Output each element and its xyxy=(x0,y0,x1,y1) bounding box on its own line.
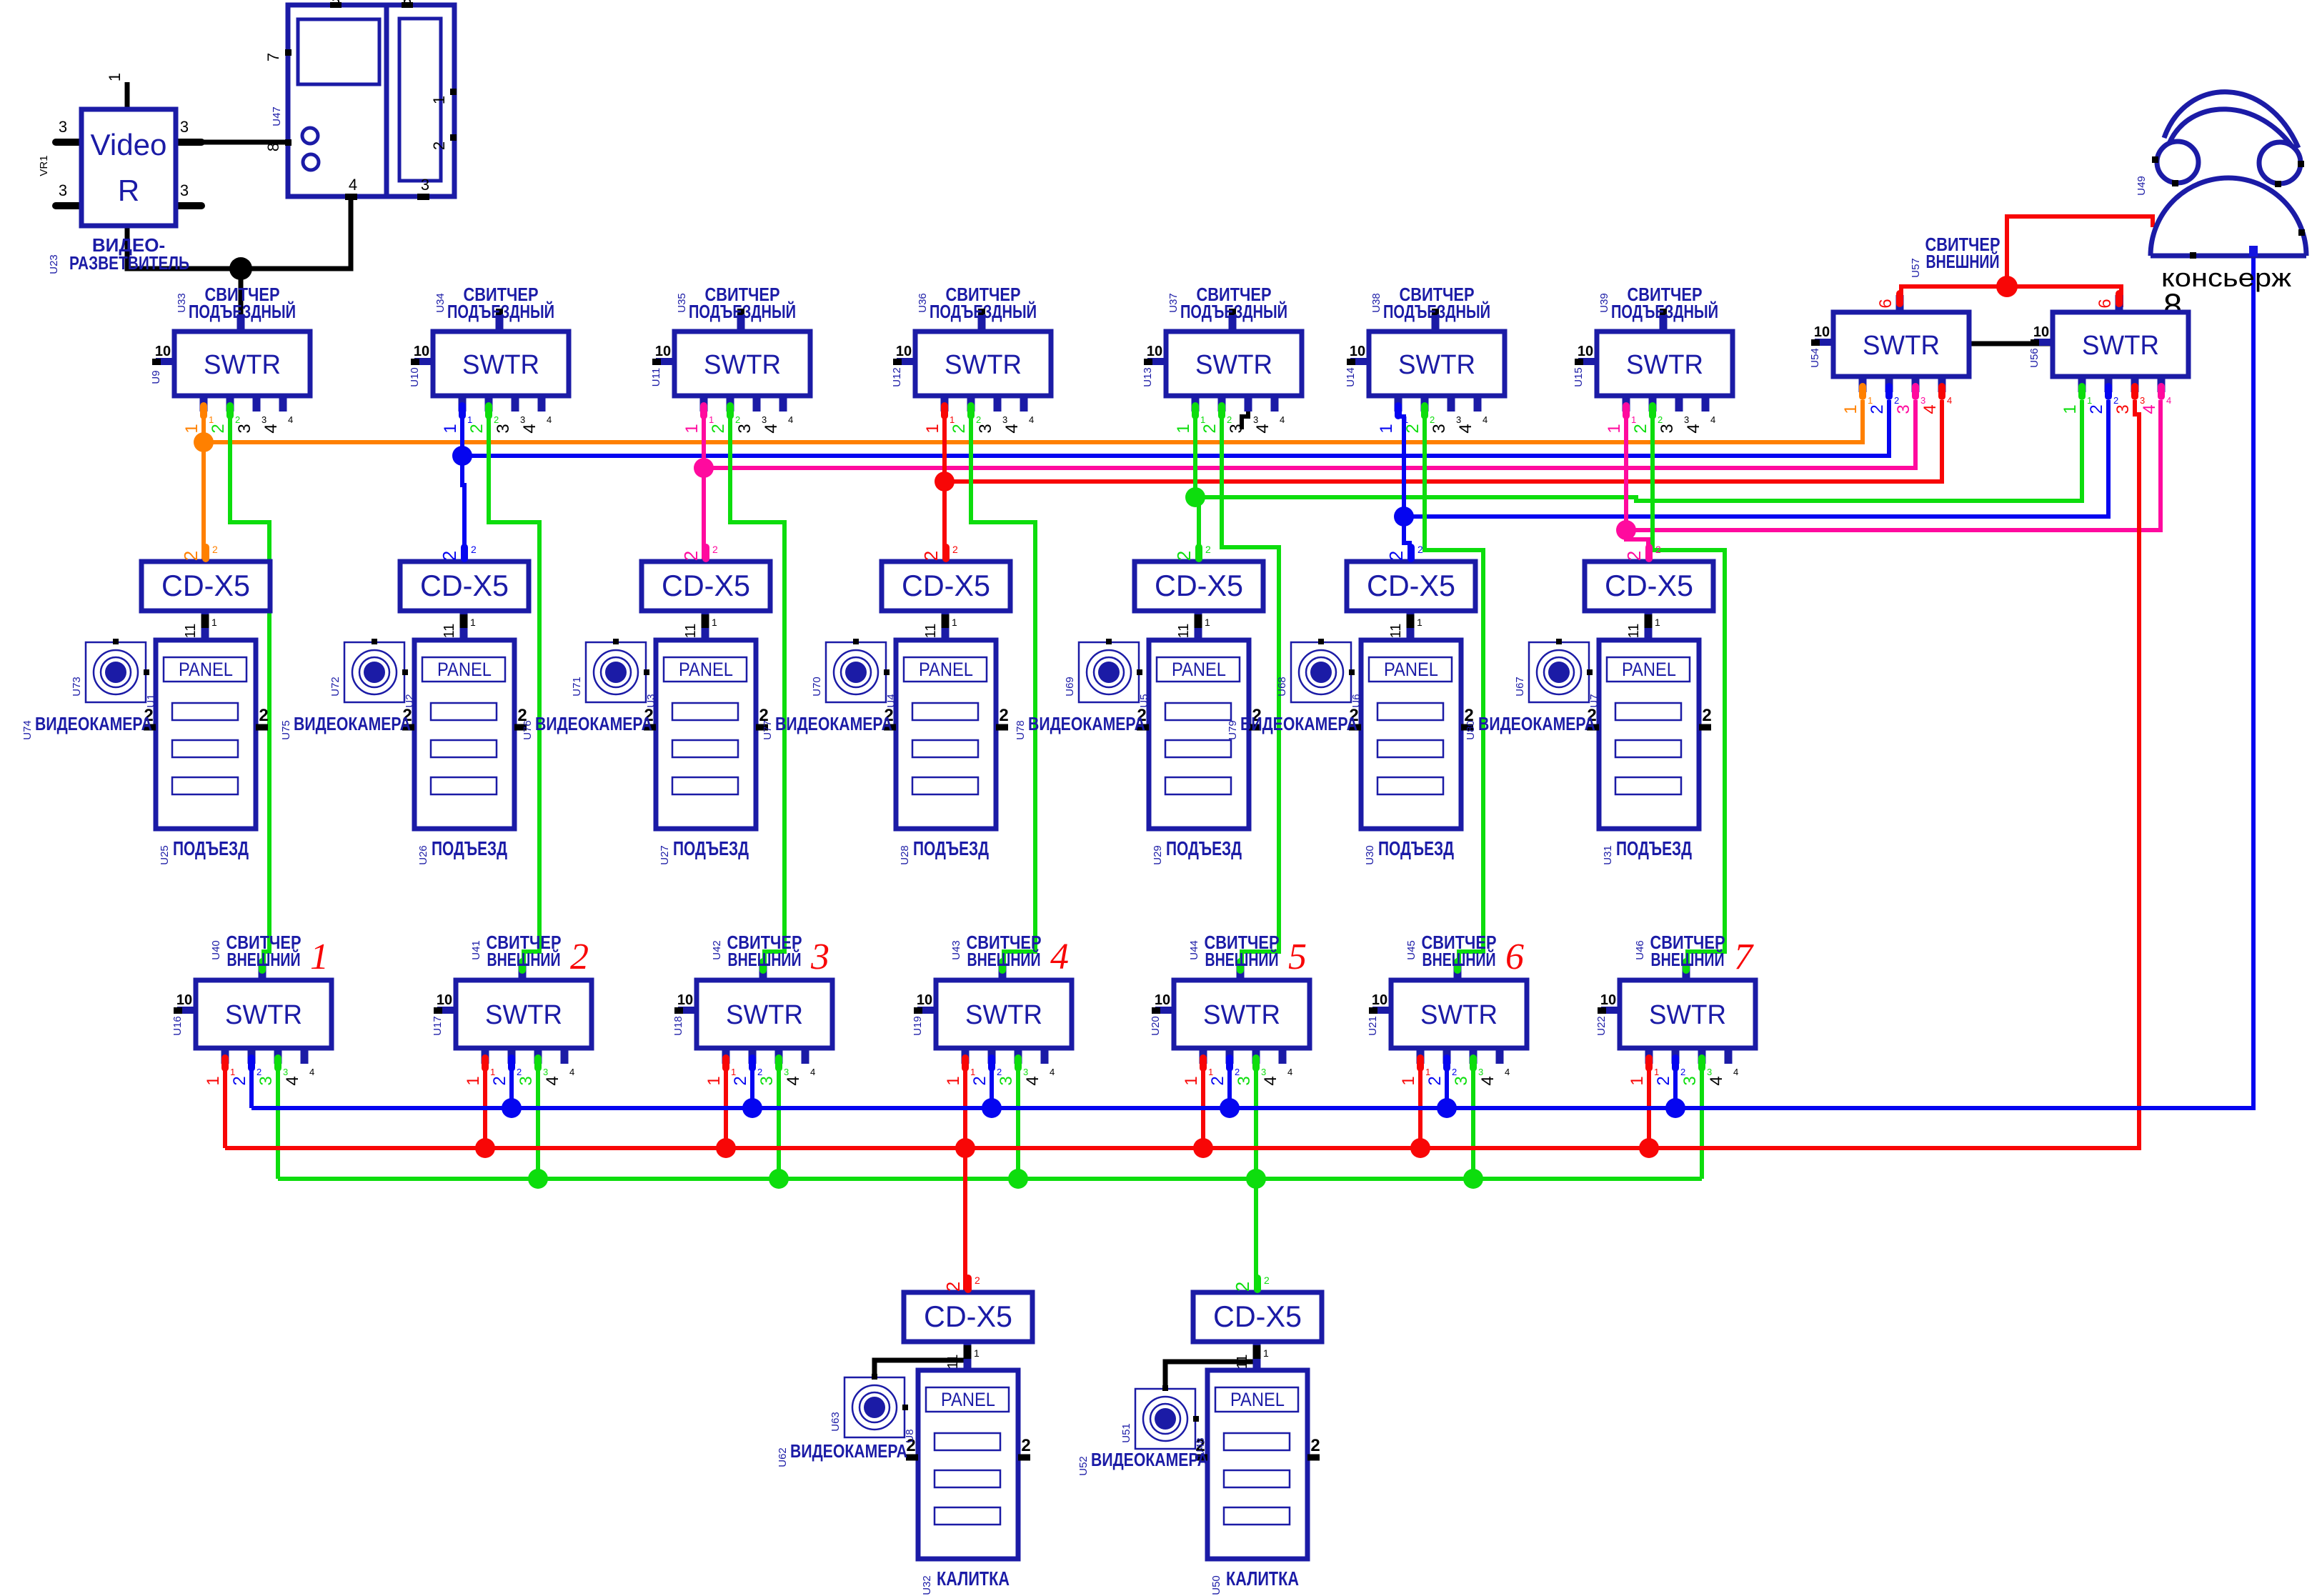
svg-text:10: 10 xyxy=(414,344,429,359)
svg-text:U10: U10 xyxy=(409,367,421,387)
svg-text:4: 4 xyxy=(1029,414,1034,425)
svg-text:2: 2 xyxy=(976,414,981,425)
svg-text:U41: U41 xyxy=(470,940,482,960)
svg-text:ВНЕШНИЙ: ВНЕШНИЙ xyxy=(1422,949,1496,970)
svg-text:11: 11 xyxy=(183,624,199,639)
svg-text:1: 1 xyxy=(1417,617,1422,628)
svg-text:2: 2 xyxy=(2113,395,2118,406)
svg-text:1: 1 xyxy=(467,414,472,425)
svg-text:U62: U62 xyxy=(777,1447,789,1467)
svg-text:3: 3 xyxy=(2113,404,2133,414)
svg-text:SWTR: SWTR xyxy=(1863,331,1940,361)
svg-text:4: 4 xyxy=(1947,395,1952,406)
svg-text:SWTR: SWTR xyxy=(726,1000,803,1030)
svg-text:U27: U27 xyxy=(659,845,671,865)
svg-text:4: 4 xyxy=(569,1067,574,1077)
svg-text:1: 1 xyxy=(2061,404,2080,414)
svg-text:11: 11 xyxy=(1176,624,1192,639)
svg-text:PANEL: PANEL xyxy=(919,659,973,680)
svg-text:2: 2 xyxy=(1654,1076,1673,1085)
svg-text:3: 3 xyxy=(520,414,525,425)
svg-text:3: 3 xyxy=(1253,414,1258,425)
svg-text:2: 2 xyxy=(212,544,218,555)
svg-text:3: 3 xyxy=(1680,1076,1700,1085)
svg-text:U57: U57 xyxy=(1910,258,1922,278)
svg-text:SWTR: SWTR xyxy=(1626,350,1703,380)
svg-text:U21: U21 xyxy=(1367,1016,1379,1036)
svg-text:РАЗВЕТВИТЕЛЬ: РАЗВЕТВИТЕЛЬ xyxy=(69,252,189,274)
svg-text:U1: U1 xyxy=(145,694,157,707)
svg-text:1: 1 xyxy=(1654,1067,1659,1077)
svg-text:1: 1 xyxy=(1841,404,1860,414)
svg-text:4: 4 xyxy=(261,424,281,433)
svg-text:ПОДЪЕЗД: ПОДЪЕЗД xyxy=(1166,837,1242,859)
svg-text:4: 4 xyxy=(1287,1067,1292,1077)
svg-text:4: 4 xyxy=(1483,414,1488,425)
svg-text:1: 1 xyxy=(1174,424,1193,433)
svg-text:4: 4 xyxy=(309,1067,314,1077)
svg-text:3: 3 xyxy=(1023,1067,1028,1077)
svg-text:ПОДЪЕЗДНЫЙ: ПОДЪЕЗДНЫЙ xyxy=(447,301,554,322)
svg-text:U30: U30 xyxy=(1364,845,1376,865)
svg-text:CD-X5: CD-X5 xyxy=(1155,569,1243,602)
svg-text:U34: U34 xyxy=(434,293,447,313)
svg-text:U72: U72 xyxy=(329,677,342,697)
svg-text:U9: U9 xyxy=(150,370,162,384)
svg-text:SWTR: SWTR xyxy=(1398,350,1475,380)
svg-text:U49: U49 xyxy=(2136,176,2148,196)
svg-text:11: 11 xyxy=(945,1355,961,1370)
svg-text:ВИДЕОКАМЕРА: ВИДЕОКАМЕРА xyxy=(1028,713,1145,734)
svg-text:2: 2 xyxy=(180,551,201,561)
svg-text:6: 6 xyxy=(2096,299,2115,308)
svg-text:2: 2 xyxy=(942,1282,964,1292)
svg-text:10: 10 xyxy=(1600,992,1616,1008)
svg-text:ПОДЪЕЗДНЫЙ: ПОДЪЕЗДНЫЙ xyxy=(930,301,1037,322)
svg-text:1: 1 xyxy=(2087,395,2092,406)
svg-text:4: 4 xyxy=(1002,424,1022,433)
svg-text:4: 4 xyxy=(2140,404,2159,414)
svg-text:4: 4 xyxy=(283,1076,302,1085)
svg-text:2: 2 xyxy=(1385,551,1407,561)
svg-text:U26: U26 xyxy=(417,845,429,865)
svg-text:3: 3 xyxy=(180,118,189,136)
svg-text:U45: U45 xyxy=(1405,940,1417,960)
svg-text:1: 1 xyxy=(1868,395,1873,406)
svg-text:1: 1 xyxy=(204,1076,223,1085)
svg-text:2: 2 xyxy=(259,706,268,725)
svg-text:2: 2 xyxy=(517,1067,522,1077)
svg-text:2: 2 xyxy=(467,424,487,433)
svg-text:U20: U20 xyxy=(1150,1016,1162,1036)
svg-text:2: 2 xyxy=(1403,424,1422,433)
svg-text:4: 4 xyxy=(1684,424,1703,433)
svg-text:U36: U36 xyxy=(917,293,929,313)
svg-text:1: 1 xyxy=(430,96,448,104)
svg-text:SWTR: SWTR xyxy=(1203,1000,1280,1030)
svg-text:U17: U17 xyxy=(432,1016,444,1036)
svg-text:2: 2 xyxy=(570,937,589,977)
svg-text:U6: U6 xyxy=(1350,694,1362,707)
svg-text:1: 1 xyxy=(1655,617,1660,628)
svg-text:3: 3 xyxy=(235,424,254,433)
svg-text:3: 3 xyxy=(1478,1067,1483,1077)
svg-text:3: 3 xyxy=(997,1076,1016,1085)
svg-text:ПОДЪЕЗДНЫЙ: ПОДЪЕЗДНЫЙ xyxy=(1180,301,1287,322)
svg-text:3: 3 xyxy=(1235,1076,1254,1085)
svg-text:PANEL: PANEL xyxy=(941,1389,995,1410)
svg-text:1: 1 xyxy=(923,424,942,433)
svg-text:3: 3 xyxy=(2140,395,2145,406)
svg-text:U73: U73 xyxy=(71,677,83,697)
svg-text:1: 1 xyxy=(704,1076,724,1085)
svg-text:U47: U47 xyxy=(271,106,283,126)
svg-text:ВИДЕОКАМЕРА: ВИДЕОКАМЕРА xyxy=(1091,1449,1208,1470)
svg-text:PANEL: PANEL xyxy=(1172,659,1226,680)
svg-text:11: 11 xyxy=(442,624,457,639)
svg-text:ВИДЕОКАМЕРА: ВИДЕОКАМЕРА xyxy=(1478,713,1595,734)
svg-text:10: 10 xyxy=(677,992,693,1008)
svg-text:U12: U12 xyxy=(891,367,903,387)
svg-text:1: 1 xyxy=(712,617,717,628)
svg-text:U70: U70 xyxy=(811,677,823,697)
svg-text:PANEL: PANEL xyxy=(437,659,492,680)
svg-text:SWTR: SWTR xyxy=(1195,350,1272,380)
svg-text:3: 3 xyxy=(1707,1067,1712,1077)
svg-text:2: 2 xyxy=(712,544,718,555)
svg-text:R: R xyxy=(118,174,139,207)
svg-text:4: 4 xyxy=(1261,1076,1280,1085)
svg-text:2: 2 xyxy=(680,551,702,561)
svg-text:3: 3 xyxy=(1002,414,1007,425)
svg-text:1: 1 xyxy=(106,73,124,81)
svg-text:U28: U28 xyxy=(899,845,911,865)
svg-text:4: 4 xyxy=(1050,937,1069,977)
svg-text:1: 1 xyxy=(952,617,957,628)
svg-text:2: 2 xyxy=(1655,544,1661,555)
svg-text:U18: U18 xyxy=(672,1016,684,1036)
svg-text:3: 3 xyxy=(784,1067,789,1077)
svg-text:11: 11 xyxy=(1626,624,1642,639)
svg-text:10: 10 xyxy=(917,992,932,1008)
svg-text:10: 10 xyxy=(155,344,171,359)
svg-text:SWTR: SWTR xyxy=(945,350,1022,380)
svg-text:1: 1 xyxy=(1208,1067,1213,1077)
svg-text:2: 2 xyxy=(471,544,477,555)
svg-text:VR1: VR1 xyxy=(38,155,50,176)
svg-text:2: 2 xyxy=(1227,414,1232,425)
svg-text:ПОДЪЕЗД: ПОДЪЕЗД xyxy=(432,837,507,859)
svg-text:10: 10 xyxy=(896,344,912,359)
svg-text:2: 2 xyxy=(256,1067,261,1077)
svg-text:3: 3 xyxy=(421,176,429,194)
svg-text:2: 2 xyxy=(1417,544,1423,555)
svg-text:U33: U33 xyxy=(176,293,188,313)
svg-text:ПОДЪЕЗД: ПОДЪЕЗД xyxy=(673,837,749,859)
svg-text:2: 2 xyxy=(439,551,460,561)
svg-text:CD-X5: CD-X5 xyxy=(1605,569,1693,602)
svg-text:U42: U42 xyxy=(711,940,723,960)
svg-text:1: 1 xyxy=(974,1347,980,1359)
svg-text:3: 3 xyxy=(757,1076,777,1085)
svg-text:2: 2 xyxy=(1232,1282,1253,1292)
svg-text:CD-X5: CD-X5 xyxy=(924,1300,1012,1333)
svg-text:2: 2 xyxy=(1264,1275,1270,1286)
svg-text:3: 3 xyxy=(1430,424,1449,433)
svg-text:1: 1 xyxy=(1399,1076,1418,1085)
svg-text:CD-X5: CD-X5 xyxy=(161,569,250,602)
svg-text:U2: U2 xyxy=(404,694,416,707)
svg-text:4: 4 xyxy=(1920,404,1940,414)
svg-text:ВИДЕОКАМЕРА: ВИДЕОКАМЕРА xyxy=(775,713,892,734)
svg-text:2: 2 xyxy=(952,544,958,555)
svg-text:SWTR: SWTR xyxy=(704,350,781,380)
svg-text:2: 2 xyxy=(920,551,942,561)
svg-text:10: 10 xyxy=(2033,324,2049,340)
svg-text:3: 3 xyxy=(976,424,995,433)
svg-text:ВИДЕОКАМЕРА: ВИДЕОКАМЕРА xyxy=(535,713,652,734)
svg-text:3: 3 xyxy=(735,424,754,433)
svg-text:2: 2 xyxy=(975,1275,980,1286)
svg-text:ВНЕШНИЙ: ВНЕШНИЙ xyxy=(967,949,1041,970)
svg-text:ПОДЪЕЗДНЫЙ: ПОДЪЕЗДНЫЙ xyxy=(1611,301,1718,322)
svg-text:ВИДЕОКАМЕРА: ВИДЕОКАМЕРА xyxy=(790,1440,907,1462)
svg-text:2: 2 xyxy=(1868,404,1887,414)
svg-text:ВИДЕОКАМЕРА: ВИДЕОКАМЕРА xyxy=(1240,713,1357,734)
svg-text:4: 4 xyxy=(1253,424,1272,433)
svg-text:4: 4 xyxy=(1710,414,1715,425)
svg-text:4: 4 xyxy=(1707,1076,1726,1085)
svg-text:3: 3 xyxy=(810,937,829,977)
svg-text:ВНЕШНИЙ: ВНЕШНИЙ xyxy=(1926,251,2000,272)
svg-text:4: 4 xyxy=(547,414,552,425)
svg-text:U46: U46 xyxy=(1634,940,1646,960)
svg-text:U25: U25 xyxy=(159,845,171,865)
svg-text:ПОДЪЕЗДНЫЙ: ПОДЪЕЗДНЫЙ xyxy=(189,301,296,322)
svg-text:U4: U4 xyxy=(885,694,897,707)
svg-text:10: 10 xyxy=(1372,992,1387,1008)
svg-text:7: 7 xyxy=(1734,937,1754,977)
svg-text:2: 2 xyxy=(1623,551,1645,561)
svg-text:U22: U22 xyxy=(1595,1016,1608,1036)
svg-text:PANEL: PANEL xyxy=(179,659,233,680)
svg-text:CD-X5: CD-X5 xyxy=(420,569,509,602)
svg-text:1: 1 xyxy=(731,1067,736,1077)
svg-text:7: 7 xyxy=(264,53,282,61)
svg-text:3: 3 xyxy=(59,181,67,199)
svg-text:1: 1 xyxy=(310,937,329,977)
svg-text:2: 2 xyxy=(1631,424,1650,433)
svg-text:1: 1 xyxy=(682,424,702,433)
svg-text:U79: U79 xyxy=(1227,720,1239,740)
svg-text:2: 2 xyxy=(709,424,728,433)
svg-text:U3: U3 xyxy=(645,694,657,707)
svg-text:3: 3 xyxy=(1920,395,1925,406)
svg-text:1: 1 xyxy=(1425,1067,1430,1077)
svg-text:U54: U54 xyxy=(1809,348,1821,368)
svg-text:SWTR: SWTR xyxy=(204,350,281,380)
svg-text:3: 3 xyxy=(1227,424,1246,433)
svg-text:2: 2 xyxy=(1173,551,1195,561)
svg-text:4: 4 xyxy=(1478,1076,1498,1085)
svg-text:2: 2 xyxy=(209,424,228,433)
svg-text:1: 1 xyxy=(1205,617,1210,628)
svg-text:CD-X5: CD-X5 xyxy=(902,569,990,602)
svg-text:10: 10 xyxy=(655,344,671,359)
svg-text:4: 4 xyxy=(762,424,781,433)
svg-text:2: 2 xyxy=(1021,1436,1030,1455)
svg-text:4: 4 xyxy=(288,414,293,425)
svg-text:10: 10 xyxy=(1155,992,1170,1008)
svg-text:1: 1 xyxy=(1263,1347,1269,1359)
svg-text:U31: U31 xyxy=(1602,845,1614,865)
svg-text:ВНЕШНИЙ: ВНЕШНИЙ xyxy=(728,949,802,970)
svg-text:2: 2 xyxy=(430,141,448,150)
svg-text:1: 1 xyxy=(944,1076,963,1085)
svg-text:U38: U38 xyxy=(1370,293,1382,313)
svg-text:5: 5 xyxy=(1288,937,1307,977)
svg-text:4: 4 xyxy=(810,1067,815,1077)
svg-text:1: 1 xyxy=(950,414,955,425)
svg-text:4: 4 xyxy=(1050,1067,1055,1077)
svg-text:3: 3 xyxy=(180,181,189,199)
svg-text:ПОДЪЕЗД: ПОДЪЕЗД xyxy=(913,837,989,859)
svg-text:PANEL: PANEL xyxy=(1622,659,1676,680)
svg-text:SWTR: SWTR xyxy=(2082,331,2159,361)
svg-text:U43: U43 xyxy=(950,940,962,960)
svg-text:11: 11 xyxy=(1235,1355,1250,1370)
svg-text:CD-X5: CD-X5 xyxy=(1213,1300,1302,1333)
svg-text:U75: U75 xyxy=(280,720,292,740)
svg-text:1: 1 xyxy=(970,1067,975,1077)
svg-text:1: 1 xyxy=(1403,414,1408,425)
svg-text:SWTR: SWTR xyxy=(485,1000,562,1030)
svg-text:2: 2 xyxy=(1452,1067,1457,1077)
svg-text:1: 1 xyxy=(1182,1076,1201,1085)
svg-text:SWTR: SWTR xyxy=(1420,1000,1498,1030)
svg-text:10: 10 xyxy=(1578,344,1593,359)
svg-text:U40: U40 xyxy=(210,940,222,960)
svg-text:3: 3 xyxy=(543,1067,548,1077)
svg-text:3: 3 xyxy=(283,1067,288,1077)
svg-text:6: 6 xyxy=(1876,299,1895,308)
svg-text:2: 2 xyxy=(1702,706,1711,725)
svg-text:ВНЕШНИЙ: ВНЕШНИЙ xyxy=(227,949,301,970)
svg-text:U69: U69 xyxy=(1064,677,1076,697)
svg-text:U52: U52 xyxy=(1077,1456,1090,1476)
svg-text:2: 2 xyxy=(1200,424,1220,433)
svg-text:ПОДЪЕЗД: ПОДЪЕЗД xyxy=(1378,837,1454,859)
svg-text:2: 2 xyxy=(1208,1076,1227,1085)
svg-text:U50: U50 xyxy=(1210,1575,1222,1595)
svg-text:3: 3 xyxy=(261,414,266,425)
svg-text:U56: U56 xyxy=(2028,348,2041,368)
svg-text:3: 3 xyxy=(1894,404,1913,414)
svg-text:U23: U23 xyxy=(48,254,60,274)
svg-text:4: 4 xyxy=(349,176,357,194)
svg-text:4: 4 xyxy=(1456,424,1475,433)
svg-text:2: 2 xyxy=(757,1067,762,1077)
svg-text:U78: U78 xyxy=(1015,720,1027,740)
svg-text:1: 1 xyxy=(1200,414,1205,425)
svg-text:10: 10 xyxy=(176,992,192,1008)
svg-text:PANEL: PANEL xyxy=(679,659,733,680)
svg-text:3: 3 xyxy=(1684,414,1689,425)
svg-text:11: 11 xyxy=(683,624,699,639)
svg-text:2: 2 xyxy=(1205,544,1211,555)
svg-text:ПОДЪЕЗДНЫЙ: ПОДЪЕЗДНЫЙ xyxy=(1383,301,1490,322)
svg-text:U19: U19 xyxy=(912,1016,924,1036)
svg-text:U5: U5 xyxy=(1138,694,1150,707)
svg-text:4: 4 xyxy=(1280,414,1285,425)
svg-text:1: 1 xyxy=(490,1067,495,1077)
svg-text:U29: U29 xyxy=(1152,845,1164,865)
svg-text:1: 1 xyxy=(1605,424,1624,433)
svg-text:3: 3 xyxy=(1658,424,1677,433)
svg-text:2: 2 xyxy=(1658,414,1663,425)
svg-text:11: 11 xyxy=(1388,624,1404,639)
svg-text:ВИДЕОКАМЕРА: ВИДЕОКАМЕРА xyxy=(35,713,152,734)
svg-text:U67: U67 xyxy=(1514,677,1526,697)
svg-text:3: 3 xyxy=(762,414,767,425)
svg-text:10: 10 xyxy=(1814,324,1830,340)
svg-text:U7: U7 xyxy=(1588,694,1600,707)
svg-text:U63: U63 xyxy=(829,1412,842,1432)
svg-text:ВНЕШНИЙ: ВНЕШНИЙ xyxy=(1205,949,1279,970)
svg-text:SWTR: SWTR xyxy=(965,1000,1042,1030)
svg-text:4: 4 xyxy=(784,1076,803,1085)
svg-text:6: 6 xyxy=(1505,937,1524,977)
svg-text:8: 8 xyxy=(264,143,282,151)
svg-text:CD-X5: CD-X5 xyxy=(1367,569,1455,602)
svg-text:U15: U15 xyxy=(1573,367,1585,387)
svg-text:4: 4 xyxy=(1733,1067,1738,1077)
svg-text:10: 10 xyxy=(1147,344,1162,359)
svg-text:U80: U80 xyxy=(1465,720,1477,740)
svg-text:SWTR: SWTR xyxy=(1649,1000,1726,1030)
svg-text:3: 3 xyxy=(59,118,67,136)
svg-text:2: 2 xyxy=(1894,395,1899,406)
svg-text:U32: U32 xyxy=(921,1575,933,1595)
svg-text:3: 3 xyxy=(1456,414,1461,425)
svg-text:2: 2 xyxy=(1310,1436,1320,1455)
svg-text:3: 3 xyxy=(517,1076,536,1085)
svg-text:2: 2 xyxy=(1425,1076,1445,1085)
svg-text:U76: U76 xyxy=(522,720,534,740)
svg-text:4: 4 xyxy=(520,424,539,433)
svg-text:U16: U16 xyxy=(171,1016,184,1036)
svg-text:2: 2 xyxy=(1680,1067,1685,1077)
svg-text:ПОДЪЕЗДНЫЙ: ПОДЪЕЗДНЫЙ xyxy=(689,301,796,322)
svg-text:2: 2 xyxy=(999,706,1008,725)
svg-text:1: 1 xyxy=(209,414,214,425)
svg-text:U35: U35 xyxy=(676,293,688,313)
svg-text:2: 2 xyxy=(950,424,969,433)
svg-text:1: 1 xyxy=(230,1067,235,1077)
svg-text:U74: U74 xyxy=(21,720,34,740)
svg-text:U37: U37 xyxy=(1167,293,1180,313)
svg-text:КАЛИТКА: КАЛИТКА xyxy=(937,1567,1010,1590)
svg-text:4: 4 xyxy=(1505,1067,1510,1077)
svg-text:4: 4 xyxy=(788,414,793,425)
svg-text:ВНЕШНИЙ: ВНЕШНИЙ xyxy=(487,949,561,970)
svg-text:3: 3 xyxy=(1261,1067,1266,1077)
svg-text:ВНЕШНИЙ: ВНЕШНИЙ xyxy=(1651,949,1725,970)
svg-text:PANEL: PANEL xyxy=(1230,1389,1285,1410)
svg-text:U14: U14 xyxy=(1345,367,1357,387)
svg-text:1: 1 xyxy=(182,424,201,433)
svg-text:3: 3 xyxy=(494,424,513,433)
